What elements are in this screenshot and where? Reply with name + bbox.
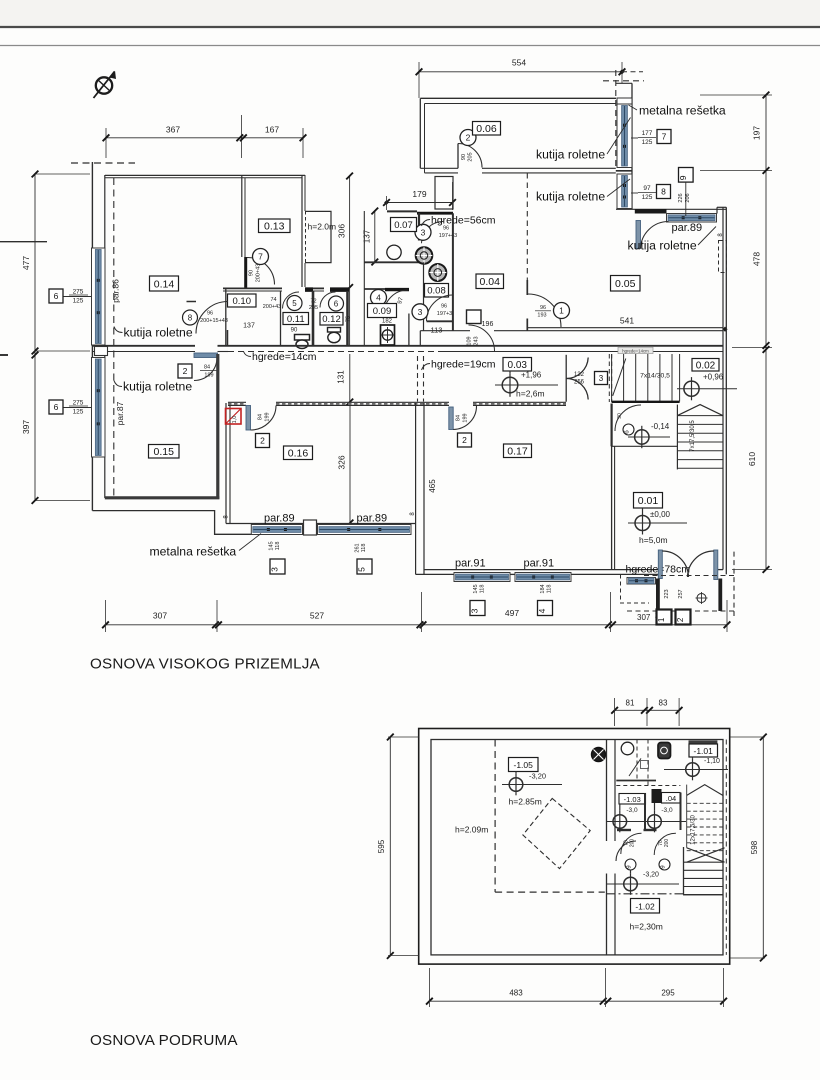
top rule 2 (0, 45, 820, 47)
door 0.17 tag box 2 (458, 433, 472, 447)
svg-text:97: 97 (643, 185, 651, 192)
door 1 number circle (554, 303, 570, 319)
door 0.06 leaf (457, 144, 459, 169)
svg-text:0.16: 0.16 (288, 448, 309, 460)
svg-text:0.11: 0.11 (287, 314, 305, 325)
svg-text:OSNOVA PODRUMA: OSNOVA PODRUMA (90, 1032, 238, 1049)
svg-text:200: 200 (630, 839, 636, 848)
wall left outer (91, 162, 93, 511)
wc door arc on landing (615, 405, 641, 431)
svg-text:257: 257 (678, 589, 684, 598)
svg-text:kutija roletne: kutija roletne (628, 239, 697, 253)
svg-text:2: 2 (260, 436, 265, 446)
basement stairs upper edge (686, 785, 688, 848)
svg-text:132: 132 (574, 372, 585, 378)
svg-text:118: 118 (275, 542, 281, 551)
room label 0.10 (228, 294, 257, 307)
svg-text:527: 527 (310, 611, 324, 621)
room label 0.05 (611, 276, 641, 292)
svg-text:84: 84 (258, 414, 264, 420)
porch wall right dark (718, 579, 722, 612)
svg-text:hgrede=19cm: hgrede=19cm (431, 359, 496, 371)
svg-text:6: 6 (54, 402, 59, 412)
window tag box 6 upper with 275/125 (49, 289, 91, 305)
svg-text:hgrede=14cm: hgrede=14cm (622, 348, 649, 353)
door 5 arc (283, 292, 300, 309)
svg-text:109: 109 (467, 336, 473, 345)
stair flight upper risers (612, 354, 680, 402)
svg-text:70: 70 (658, 840, 664, 846)
basement middle wall lower (606, 874, 608, 955)
dimension 179 small (383, 182, 456, 210)
label kutija roletne right upper (536, 118, 631, 162)
wall top of room 0.14/0.13 (105, 174, 305, 176)
door 2 corridor arc (194, 358, 217, 381)
door 4 number circle (371, 290, 387, 306)
double door tag box 3 (595, 372, 608, 385)
svg-text:-1,10: -1,10 (704, 758, 720, 765)
svg-text:1: 1 (559, 306, 564, 316)
svg-text:193: 193 (537, 313, 546, 319)
dashdot boundary -1.02 (607, 893, 684, 895)
dashed niche opening 0.13 (305, 211, 307, 263)
basement right wall dashed middle (725, 740, 727, 955)
door 3 upper number circle (415, 224, 431, 240)
window par.87 left wall (92, 358, 106, 458)
svg-text:367: 367 (166, 125, 180, 135)
svg-text:118: 118 (547, 585, 553, 594)
svg-text:199: 199 (204, 373, 213, 379)
door 0.16 arc (251, 406, 277, 431)
wc door arcs (621, 833, 642, 854)
svg-text:6: 6 (334, 300, 339, 309)
window tag box 3 (270, 559, 285, 574)
basement dim 595 left (377, 734, 419, 959)
label kutija roletne left second (114, 380, 192, 394)
svg-text:-0,14: -0,14 (651, 422, 670, 431)
svg-text:483: 483 (509, 989, 523, 998)
window par.86 left wall (92, 248, 106, 345)
porch dashed outline (627, 610, 734, 612)
double door lower leaf arc (566, 378, 588, 399)
room 0.04/0.05 divider dashed upper (526, 173, 528, 280)
toilet 0.09 (381, 325, 395, 345)
basement bath dashed v (647, 740, 649, 787)
dashed roof edge top right (603, 80, 644, 82)
svg-text:72: 72 (310, 299, 316, 305)
terrace door jamb (636, 221, 641, 249)
basement bath wall dashed h (616, 785, 680, 787)
basement bath wall h (616, 780, 656, 782)
svg-text:113: 113 (431, 326, 443, 335)
svg-text:477: 477 (21, 256, 31, 270)
svg-text:200: 200 (664, 839, 670, 848)
dimension 554 top (416, 58, 626, 99)
room label 0.11 (283, 313, 309, 325)
svg-text:307: 307 (637, 613, 651, 622)
svg-text:307: 307 (153, 611, 167, 621)
room 0.08 walls (423, 262, 425, 330)
corridor bottom hatched wall (228, 402, 566, 405)
svg-text:205: 205 (468, 152, 474, 161)
svg-text:199: 199 (463, 413, 469, 422)
svg-text:125: 125 (73, 409, 84, 416)
door 8 jamb (227, 330, 229, 346)
svg-text:0.08: 0.08 (427, 286, 446, 297)
svg-text:2: 2 (462, 435, 467, 445)
svg-text:0.02: 0.02 (696, 360, 716, 371)
svg-text:hgrede=14cm: hgrede=14cm (252, 351, 317, 363)
window tag box 7 with 177/125 (631, 130, 671, 147)
entrance threshold dashed (644, 575, 734, 577)
svg-text:205: 205 (309, 305, 318, 311)
svg-text:275: 275 (73, 400, 84, 407)
right outer wall (722, 207, 724, 569)
svg-text:h=2.0m: h=2.0m (308, 222, 337, 232)
page-edge stub line lower (0, 354, 8, 356)
svg-text:1: 1 (657, 617, 666, 622)
door 1 arc (528, 294, 561, 327)
svg-text:90: 90 (617, 413, 623, 419)
partition 0.10/0.11 (280, 291, 282, 346)
label metalna resetka bottom (150, 534, 262, 559)
stamp -1.02 (631, 899, 660, 914)
svg-text:137: 137 (243, 323, 255, 330)
door 3 upper arc (422, 221, 444, 243)
room 0.09 right wall (408, 314, 410, 347)
svg-text:306: 306 (337, 224, 347, 238)
porch dashed step left (621, 575, 650, 604)
svg-text:0.12: 0.12 (322, 314, 341, 325)
door 5 number circle (287, 296, 302, 311)
terrace band top wall with lintel (616, 208, 726, 210)
svg-text:4: 4 (376, 293, 381, 303)
porch wall left dark (656, 579, 660, 612)
room label 0.09 (368, 304, 397, 318)
svg-text:96: 96 (441, 304, 447, 310)
svg-text:200+43: 200+43 (263, 304, 282, 310)
svg-text:+0,96: +0,96 (703, 373, 724, 382)
svg-text:0.03: 0.03 (508, 360, 528, 371)
door 0.16 tag box 2 (256, 434, 270, 448)
svg-text:125: 125 (642, 139, 653, 146)
room 0.15 bottom wall (105, 496, 220, 499)
svg-text:9: 9 (660, 865, 667, 869)
door 0.17 arc (453, 406, 476, 430)
svg-text:196: 196 (482, 321, 494, 328)
label metalna resetka right (629, 104, 726, 118)
wall above small rooms 0.10-0.12 (223, 287, 282, 289)
door corridor-lobby arc (469, 325, 495, 351)
svg-text:90: 90 (461, 154, 467, 160)
svg-text:0.05: 0.05 (615, 278, 636, 290)
room label 0.13 (259, 219, 291, 233)
svg-text:-3,0: -3,0 (661, 807, 673, 814)
door 3 lower arc (427, 295, 453, 321)
room label 0.04 (476, 274, 504, 289)
svg-text:h=5,0m: h=5,0m (639, 535, 668, 545)
svg-text:7: 7 (662, 132, 667, 142)
window pier between par.89 (304, 520, 317, 535)
toilet room 0.11 (295, 335, 310, 341)
svg-text:hgrede=56cm: hgrede=56cm (431, 215, 496, 227)
room label 0.17 (504, 444, 532, 458)
svg-text:595: 595 (377, 839, 386, 853)
east wall divider between windows (616, 170, 632, 172)
window par.91 left (454, 573, 510, 582)
svg-text:0.17: 0.17 (507, 446, 528, 458)
dashed inner face par.86 wall (113, 178, 115, 497)
basement stairwell left wall (683, 847, 685, 895)
svg-text:5: 5 (357, 567, 367, 572)
svg-text:5: 5 (292, 299, 297, 308)
svg-text:-1.03: -1.03 (624, 795, 641, 804)
svg-text:7: 7 (258, 252, 263, 262)
closet 0.10 left wall (225, 288, 227, 346)
svg-text:par.87: par.87 (115, 401, 125, 425)
door 8 number circle (183, 310, 198, 325)
room label 0.15 (149, 445, 180, 459)
svg-text:75: 75 (346, 316, 352, 322)
entrance door arc right (688, 551, 714, 577)
svg-text:h=2,6m: h=2,6m (516, 389, 545, 399)
svg-text:84: 84 (204, 365, 210, 371)
svg-text:3: 3 (421, 227, 426, 237)
svg-text:199: 199 (265, 412, 271, 421)
room label 0.01 (634, 493, 663, 509)
svg-text:478: 478 (752, 252, 762, 266)
terrace door arc (641, 222, 669, 249)
basement bath top fixtures (621, 742, 670, 776)
svg-text:par.89: par.89 (264, 513, 295, 525)
svg-text:par.89: par.89 (672, 222, 703, 234)
svg-text:125: 125 (73, 298, 84, 305)
landing bottom wall (612, 445, 678, 447)
door 0.06 number circle 2 (460, 130, 476, 146)
entrance door jamb left (658, 550, 662, 579)
svg-text:197: 197 (752, 126, 762, 140)
svg-text:200+43: 200+43 (256, 264, 262, 283)
svg-text:610: 610 (747, 452, 757, 466)
door 6 number circle (329, 296, 344, 311)
svg-text:179: 179 (412, 189, 426, 199)
svg-text:-1.05: -1.05 (514, 760, 534, 770)
toilet room 0.12 (328, 328, 341, 343)
svg-text:497: 497 (505, 608, 519, 618)
wall between 0.16 and 0.17 (415, 403, 417, 574)
stamp -1.04 (662, 793, 681, 804)
room label 0.02 (692, 359, 719, 372)
svg-text:.04: .04 (666, 794, 676, 803)
svg-text:7x17,5/30,5: 7x17,5/30,5 (690, 420, 696, 452)
svg-text:83: 83 (659, 699, 668, 708)
stamp -1.05 with level (502, 758, 562, 807)
svg-text:metalna rešetka: metalna rešetka (639, 104, 726, 118)
svg-text:118: 118 (480, 585, 486, 594)
svg-text:256: 256 (574, 380, 585, 386)
svg-text:0.10: 0.10 (233, 296, 252, 307)
dark door square (652, 789, 662, 803)
svg-text:h=2,30m: h=2,30m (630, 922, 663, 932)
svg-text:metalna rešetka: metalna rešetka (150, 545, 237, 559)
svg-text:541: 541 (620, 316, 634, 326)
stamp -1.01 dark band (689, 740, 718, 744)
svg-text:145: 145 (269, 541, 275, 550)
dark column circle (592, 748, 606, 762)
porch sill window (627, 578, 656, 585)
room label 0.03 (503, 358, 532, 372)
stamp -1.03 (619, 794, 646, 805)
svg-text:-1.02: -1.02 (635, 902, 655, 912)
wall thick segments above 0.11/0.12 (305, 287, 313, 292)
svg-text:0.06: 0.06 (476, 123, 497, 135)
room label 0.07 (391, 218, 417, 232)
east wall dashed inner face (615, 70, 617, 168)
svg-text:81: 81 (626, 699, 635, 708)
bottom wall rooms 0.04/0.05 (528, 327, 723, 329)
washbasin 0.07 open circle (387, 245, 401, 259)
wall left inner segments (104, 175, 106, 248)
window par.89 right (318, 525, 412, 535)
dimension 397 left (21, 351, 90, 504)
dimension 367/167 top-left (103, 115, 307, 158)
door 7 arc (247, 257, 275, 284)
svg-text:kutija roletne: kutija roletne (536, 190, 605, 204)
svg-text:0.13: 0.13 (264, 221, 285, 233)
dashed wall east of double door (608, 354, 610, 402)
door corridor-lobby leaf box (467, 310, 482, 324)
svg-text:par.91: par.91 (455, 558, 486, 570)
svg-text:74: 74 (270, 297, 276, 303)
svg-text:243: 243 (474, 336, 480, 345)
east wall outer line (631, 83, 633, 209)
svg-text:-3,20: -3,20 (643, 872, 659, 879)
wall top of 0.07 (387, 210, 417, 212)
top rule 1 (0, 26, 820, 28)
room label 0.16 (284, 446, 313, 460)
svg-text:131: 131 (337, 370, 346, 384)
wall stub west of lobby (419, 331, 421, 346)
svg-text:197+3: 197+3 (437, 311, 452, 317)
door 0.16 jamb (246, 406, 251, 431)
outer boundary bottom-left step (92, 511, 251, 535)
porch tag box 2 (676, 610, 691, 625)
entrance door arc left (662, 551, 688, 577)
svg-text:par.89: par.89 (357, 513, 388, 525)
svg-text:90: 90 (291, 328, 298, 334)
washbasin 0.07 dark (416, 247, 433, 264)
window tag box 8 with 97/125 (631, 185, 671, 202)
svg-text:0.04: 0.04 (480, 276, 501, 288)
svg-text:326: 326 (337, 455, 347, 469)
basement bath small rect (641, 761, 649, 769)
svg-text:96: 96 (207, 311, 213, 317)
svg-text:167: 167 (265, 125, 279, 135)
svg-text:465: 465 (428, 479, 437, 493)
svg-text:par.86: par.86 (111, 279, 121, 303)
label kutija roletne right second (536, 179, 630, 204)
svg-text:261: 261 (355, 543, 361, 552)
page top grey band (0, 0, 820, 26)
partition right of 0.12 (346, 291, 349, 346)
partition 0.11/0.12 (312, 291, 315, 346)
basement middle door arc (616, 841, 636, 861)
svg-text:554: 554 (512, 58, 526, 68)
door 4 arc (384, 290, 408, 314)
svg-text:598: 598 (750, 840, 759, 854)
dimension 477 left (21, 171, 90, 355)
red stamp at 0.16 door (226, 409, 242, 425)
svg-text:3: 3 (599, 374, 604, 383)
svg-text:84: 84 (456, 415, 462, 421)
svg-text:0.14: 0.14 (154, 278, 175, 290)
wall between 0.17 and 0.01 (611, 404, 613, 570)
svg-text:1,0: 1,0 (232, 416, 238, 424)
door 7 number circle (253, 249, 269, 265)
svg-text:177: 177 (642, 130, 653, 137)
door 0.06 arc (458, 144, 482, 168)
svg-text:-3,20: -3,20 (529, 772, 546, 781)
corridor top wall (93, 345, 196, 347)
svg-text:145: 145 (473, 584, 479, 593)
room 0.06 top wall (420, 97, 616, 99)
svg-text:4: 4 (537, 608, 547, 613)
room 0.16 left wall (225, 403, 227, 524)
svg-text:7x14/30,5: 7x14/30,5 (640, 373, 670, 380)
svg-text:3: 3 (418, 307, 423, 317)
svg-text:0.09: 0.09 (373, 306, 392, 317)
double door upper leaf arc (566, 358, 588, 379)
svg-text:12x17,5/30: 12x17,5/30 (691, 814, 697, 844)
svg-text:6: 6 (624, 430, 631, 434)
door 2 tag box (178, 364, 192, 378)
door 0.17 jamb (449, 407, 453, 430)
south wall of 0.17/0.01 block (424, 569, 658, 571)
svg-text:3: 3 (470, 608, 480, 613)
label kutija roletne terrace (628, 227, 717, 253)
room 0.06 left wall (419, 98, 421, 168)
hgrede=14cm grey tag on stair wall (618, 347, 653, 353)
label hgrede=14cm (244, 351, 317, 363)
dashed niche right wall (719, 241, 727, 273)
wc door number circles (625, 859, 636, 870)
room 0.04/0.05 divider solid (526, 280, 528, 295)
stair flight down chevron (677, 405, 722, 416)
wc stall partitions (644, 794, 646, 831)
svg-text:0.01: 0.01 (638, 495, 659, 507)
svg-text:6: 6 (54, 291, 59, 301)
room 0.07 bottom wall (364, 261, 423, 263)
wall between 0.14 and 0.13 (241, 175, 243, 257)
wall under door 3 lower (427, 320, 453, 322)
label hgrede=56cm (422, 215, 496, 227)
terrace window par.89 horizontal (667, 214, 717, 223)
wall junction white box left (95, 347, 108, 356)
svg-text:h=2.85m: h=2.85m (509, 797, 542, 807)
room label 0.08 (425, 284, 449, 298)
svg-text:206: 206 (685, 193, 691, 202)
porch level cross (697, 594, 706, 603)
basement dashed zone line horizontal (495, 891, 605, 893)
page-edge stub line upper (0, 241, 47, 243)
svg-text:3: 3 (270, 567, 280, 572)
door 6 arc (320, 292, 336, 308)
svg-text:0.15: 0.15 (154, 446, 175, 458)
stair flight down risers (677, 405, 722, 470)
wall right of 0.13 (301, 175, 303, 287)
room 0.09 top wall (364, 288, 385, 290)
svg-text:+1,96: +1,96 (521, 371, 542, 380)
